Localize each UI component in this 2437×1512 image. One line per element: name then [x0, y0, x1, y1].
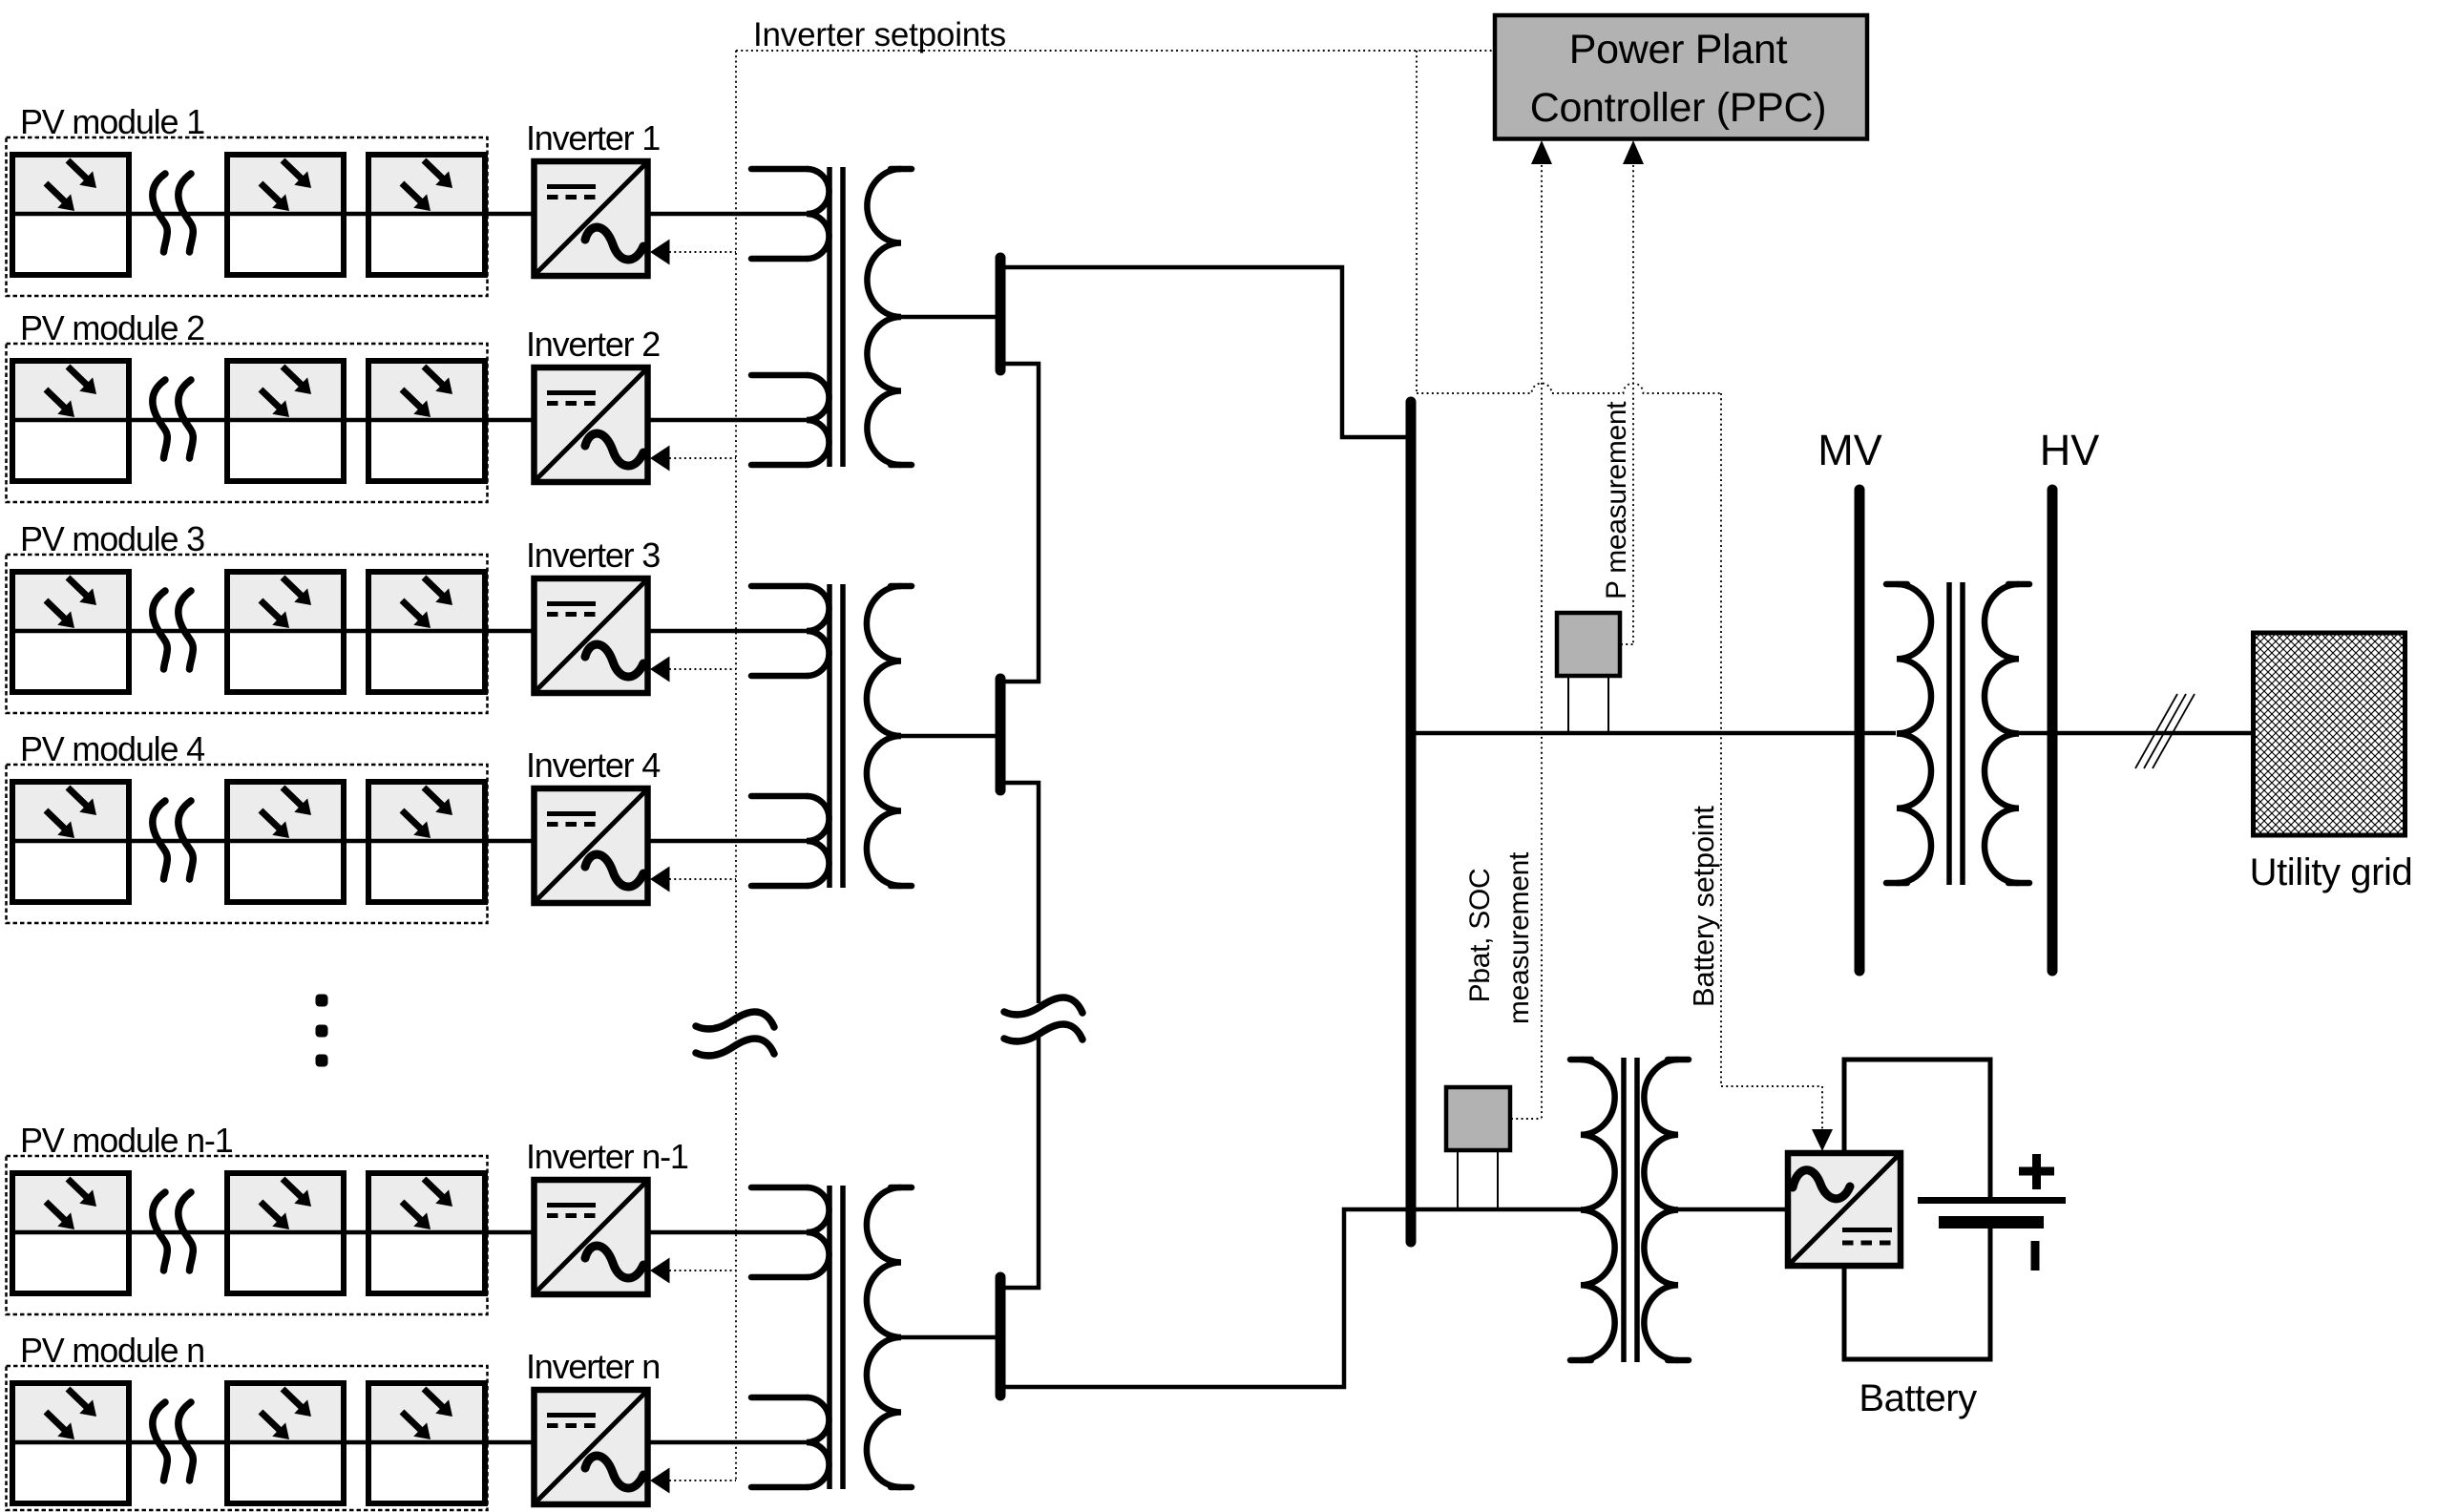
svg-text:Power Plant: Power Plant	[1569, 27, 1788, 73]
svg-text:Inverter n-1: Inverter n-1	[526, 1137, 688, 1176]
svg-text:PV module 2: PV module 2	[20, 308, 204, 347]
svg-text:Inverter 1: Inverter 1	[526, 118, 660, 157]
svg-text:Inverter 4: Inverter 4	[526, 745, 660, 785]
svg-text:MV: MV	[1817, 426, 1882, 474]
svg-text:PV module n-1: PV module n-1	[20, 1121, 233, 1160]
svg-text:Controller (PPC): Controller (PPC)	[1530, 85, 1827, 131]
svg-text:Inverter n: Inverter n	[526, 1347, 660, 1386]
svg-text:P measurement: P measurement	[1601, 401, 1632, 599]
svg-text:Inverter setpoints: Inverter setpoints	[753, 16, 1006, 53]
svg-text:HV: HV	[2040, 426, 2100, 474]
svg-text:Inverter 2: Inverter 2	[526, 325, 660, 364]
svg-text:PV module 4: PV module 4	[20, 729, 204, 768]
svg-text:PV module 1: PV module 1	[20, 102, 204, 141]
svg-text:Pbat, SOC: Pbat, SOC	[1464, 869, 1496, 1003]
svg-text:Battery: Battery	[1859, 1377, 1977, 1419]
svg-text:PV module 3: PV module 3	[20, 519, 204, 558]
svg-text:PV module n: PV module n	[20, 1331, 204, 1370]
svg-text:Utility grid: Utility grid	[2250, 851, 2413, 893]
svg-text:Battery setpoint: Battery setpoint	[1687, 806, 1720, 1007]
svg-text:measurement: measurement	[1503, 851, 1535, 1024]
svg-text:Inverter 3: Inverter 3	[526, 535, 660, 575]
